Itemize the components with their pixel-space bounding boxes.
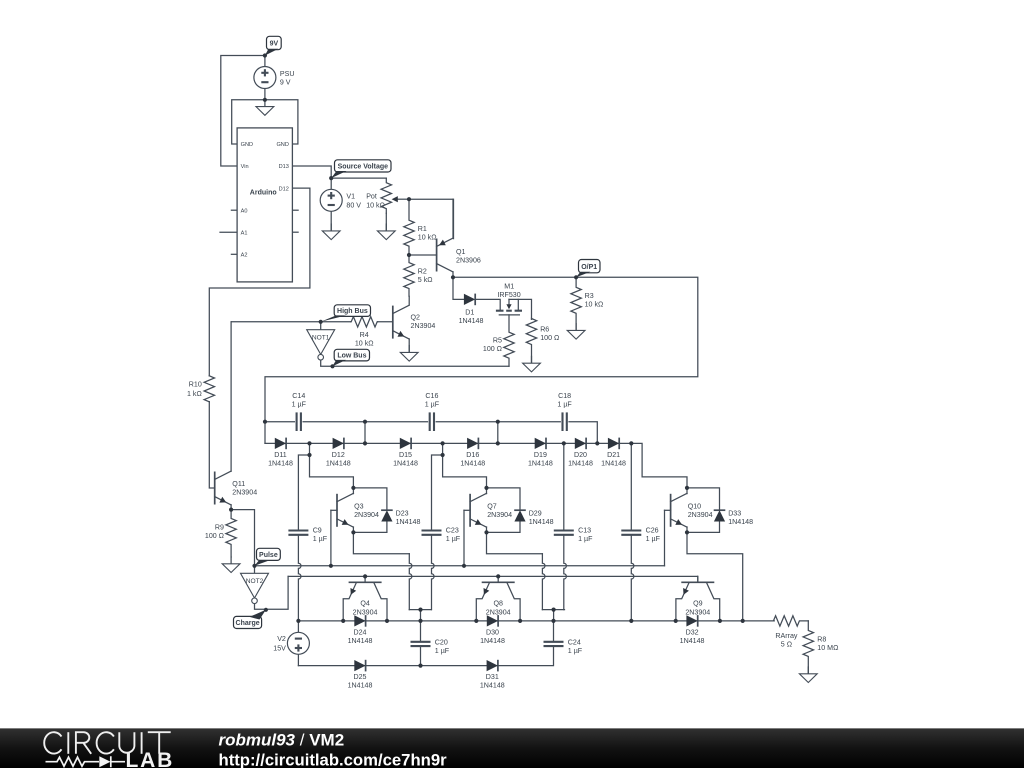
svg-text:9 V: 9 V: [280, 78, 291, 86]
svg-text:10 kΩ: 10 kΩ: [585, 301, 604, 309]
svg-text:C18: C18: [558, 392, 571, 400]
svg-text:V1: V1: [346, 193, 355, 201]
svg-text:GND: GND: [276, 142, 288, 148]
svg-text:10 MΩ: 10 MΩ: [817, 644, 838, 652]
svg-text:1 µF: 1 µF: [568, 647, 583, 655]
svg-text:D11: D11: [274, 451, 287, 459]
svg-text:Q2: Q2: [411, 314, 421, 322]
svg-text:D25: D25: [353, 673, 366, 681]
svg-text:D32: D32: [686, 628, 699, 636]
svg-text:C13: C13: [578, 526, 591, 534]
svg-text:D29: D29: [529, 509, 542, 517]
svg-text:LAB: LAB: [126, 749, 175, 769]
svg-text:R3: R3: [585, 292, 594, 300]
svg-text:2N3904: 2N3904: [353, 608, 378, 616]
svg-text:O/P1: O/P1: [581, 264, 597, 271]
svg-text:2N3904: 2N3904: [411, 322, 436, 330]
svg-text:1 µF: 1 µF: [425, 401, 440, 409]
svg-text:1N4148: 1N4148: [568, 459, 593, 467]
svg-text:2N3906: 2N3906: [456, 257, 481, 265]
svg-text:C14: C14: [292, 392, 305, 400]
svg-text:10 kΩ: 10 kΩ: [366, 201, 385, 209]
svg-text:100 Ω: 100 Ω: [483, 345, 502, 353]
svg-text:R9: R9: [215, 524, 224, 532]
svg-text:10 kΩ: 10 kΩ: [418, 234, 437, 242]
svg-text:D31: D31: [486, 673, 499, 681]
svg-text:C23: C23: [446, 526, 459, 534]
svg-text:1N4148: 1N4148: [529, 518, 554, 526]
svg-text:C26: C26: [646, 526, 659, 534]
svg-text:Q1: Q1: [456, 248, 466, 256]
svg-text:80 V: 80 V: [346, 201, 361, 209]
svg-text:5 kΩ: 5 kΩ: [418, 276, 433, 284]
svg-text:D12: D12: [279, 187, 289, 193]
svg-text:10 kΩ: 10 kΩ: [355, 340, 374, 348]
svg-text:1 µF: 1 µF: [292, 401, 307, 409]
svg-text:Q8: Q8: [493, 600, 503, 608]
svg-text:R10: R10: [189, 380, 202, 388]
svg-text:D15: D15: [399, 451, 412, 459]
svg-text:C9: C9: [313, 526, 322, 534]
svg-text:R4: R4: [360, 331, 369, 339]
svg-text:IRF530: IRF530: [497, 291, 520, 299]
svg-text:D19: D19: [534, 451, 547, 459]
svg-text:robmul93 / VM2: robmul93 / VM2: [219, 730, 345, 749]
svg-text:Vin: Vin: [241, 164, 249, 170]
svg-text:Source Voltage: Source Voltage: [338, 164, 389, 171]
svg-text:1 µF: 1 µF: [557, 401, 572, 409]
svg-text:100 Ω: 100 Ω: [205, 532, 224, 540]
svg-text:C16: C16: [425, 392, 438, 400]
svg-text:Charge: Charge: [236, 620, 260, 627]
svg-text:1N4148: 1N4148: [460, 459, 485, 467]
svg-text:9V: 9V: [270, 41, 279, 48]
svg-text:1 µF: 1 µF: [446, 535, 461, 543]
svg-text:Pot: Pot: [366, 193, 377, 201]
svg-text:D30: D30: [486, 628, 499, 636]
svg-text:RArray: RArray: [775, 632, 798, 640]
svg-text:Q9: Q9: [693, 600, 703, 608]
svg-text:5 Ω: 5 Ω: [781, 641, 792, 649]
svg-text:2N3904: 2N3904: [486, 608, 511, 616]
svg-text:2N3904: 2N3904: [688, 511, 713, 519]
svg-text:R2: R2: [418, 268, 427, 276]
svg-text:Q4: Q4: [360, 600, 370, 608]
svg-text:1N4148: 1N4148: [480, 682, 505, 690]
svg-text:D1: D1: [465, 308, 474, 316]
svg-text:High Bus: High Bus: [337, 308, 368, 315]
svg-text:Q3: Q3: [354, 503, 364, 511]
svg-text:1N4148: 1N4148: [601, 459, 626, 467]
svg-text:Pulse: Pulse: [259, 552, 278, 559]
svg-text:1N4148: 1N4148: [528, 459, 553, 467]
svg-text:2N3904: 2N3904: [232, 489, 257, 497]
svg-text:2N3904: 2N3904: [685, 608, 710, 616]
svg-text:C20: C20: [435, 639, 448, 647]
svg-text:A2: A2: [241, 252, 248, 258]
svg-text:R1: R1: [418, 225, 427, 233]
svg-text:1N4148: 1N4148: [348, 682, 373, 690]
svg-text:D21: D21: [607, 451, 620, 459]
svg-text:1N4148: 1N4148: [480, 637, 505, 645]
svg-text:2N3904: 2N3904: [487, 511, 512, 519]
svg-text:A1: A1: [241, 230, 248, 236]
svg-text:1N4148: 1N4148: [326, 459, 351, 467]
svg-text:PSU: PSU: [280, 70, 295, 78]
svg-text:1 µF: 1 µF: [646, 535, 661, 543]
svg-text:M1: M1: [504, 282, 514, 290]
svg-text:R8: R8: [817, 635, 826, 643]
svg-text:D23: D23: [396, 509, 409, 517]
svg-text:D16: D16: [466, 451, 479, 459]
svg-text:Q10: Q10: [688, 503, 701, 511]
svg-text:D24: D24: [353, 628, 366, 636]
svg-text:2N3904: 2N3904: [354, 511, 379, 519]
svg-text:D33: D33: [728, 509, 741, 517]
svg-text:Arduino: Arduino: [250, 190, 277, 197]
svg-text:1N4148: 1N4148: [396, 518, 421, 526]
svg-text:A0: A0: [241, 208, 248, 214]
svg-text:1 µF: 1 µF: [313, 535, 328, 543]
svg-text:1N4148: 1N4148: [459, 317, 484, 325]
svg-text:GND: GND: [241, 142, 253, 148]
svg-text:Low Bus: Low Bus: [337, 353, 366, 360]
svg-text:1 µF: 1 µF: [435, 647, 450, 655]
svg-text:Q7: Q7: [487, 503, 497, 511]
svg-text:1N4148: 1N4148: [268, 459, 293, 467]
svg-text:D20: D20: [574, 451, 587, 459]
svg-text:15V: 15V: [273, 645, 286, 653]
svg-text:100 Ω: 100 Ω: [540, 334, 559, 342]
svg-text:R6: R6: [540, 325, 549, 333]
svg-text:V2: V2: [277, 635, 286, 643]
svg-text:1 µF: 1 µF: [578, 535, 593, 543]
svg-text:1N4148: 1N4148: [393, 459, 418, 467]
svg-text:R5: R5: [493, 336, 502, 344]
svg-text:D13: D13: [279, 164, 289, 170]
svg-text:C24: C24: [568, 639, 581, 647]
svg-text:NOT2: NOT2: [246, 578, 264, 585]
svg-text:http://circuitlab.com/ce7hn9r: http://circuitlab.com/ce7hn9r: [219, 751, 448, 769]
svg-text:1N4148: 1N4148: [680, 637, 705, 645]
svg-text:1N4148: 1N4148: [348, 637, 373, 645]
svg-text:D12: D12: [332, 451, 345, 459]
svg-text:1N4148: 1N4148: [728, 518, 753, 526]
svg-text:Q11: Q11: [232, 480, 245, 488]
svg-text:NOT1: NOT1: [312, 335, 330, 342]
svg-text:1 kΩ: 1 kΩ: [187, 390, 202, 398]
